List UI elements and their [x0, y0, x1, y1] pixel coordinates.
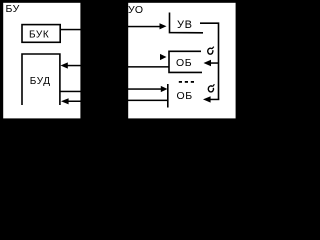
box UV (left edge + bottom edge only)	[170, 13, 204, 33]
box OB1 (top, left, bottom edges)	[169, 51, 202, 72]
plain wire into OB2 left (lower)	[128, 100, 168, 102]
wire corner + arrow into OB2 right	[211, 99, 220, 101]
plain wire into OB1 lower-left	[128, 66, 169, 68]
svg-text:ОБ: ОБ	[176, 57, 192, 69]
svg-text:БУК: БУК	[29, 29, 49, 40]
border bottom	[0, 118, 240, 124]
arrow into UV box	[128, 26, 160, 28]
arrow into BUD right side (upper)	[66, 65, 81, 67]
middle black band	[80, 0, 128, 124]
wire from BUK to band	[60, 29, 80, 31]
dots ...	[179, 81, 182, 83]
border right	[236, 0, 240, 124]
svg-text:БУ: БУ	[6, 3, 20, 15]
svg-text:УО: УО	[128, 4, 144, 16]
box OB2 (left edge only)	[167, 84, 169, 108]
border top	[0, 0, 240, 3]
arrow into OB2 left (upper)	[128, 88, 161, 90]
svg-text:УВ: УВ	[177, 19, 193, 31]
wire from UV right going down	[200, 23, 219, 99]
box BUD (open bottom)	[22, 54, 60, 105]
page background	[0, 0, 240, 124]
arrow from vertical wire into OB1 right	[210, 62, 219, 64]
arrow into BUD right side (lower)	[67, 101, 81, 103]
svg-text:БУД: БУД	[30, 76, 51, 87]
svg-text:ОБ: ОБ	[177, 90, 193, 102]
border left	[0, 0, 3, 124]
C glyph 1 (ring with gap and tick)	[208, 48, 213, 54]
box BUK	[22, 25, 60, 43]
floating arrowhead into OB1 left	[160, 54, 167, 60]
plain wire out of BUD (middle)	[61, 91, 81, 93]
C glyph 2	[208, 86, 213, 92]
